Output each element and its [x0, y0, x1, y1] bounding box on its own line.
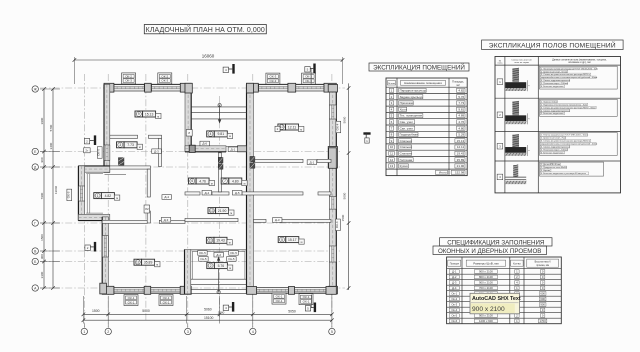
- axis bubble 1: [83, 324, 85, 328]
- axis bubble В: [32, 248, 38, 254]
- bottom dimension chain 2 total 15100: [83, 319, 332, 321]
- svg-text:2. Цементный слой - 10 мм: 2. Цементный слой - 10 мм: [541, 70, 568, 73]
- svg-text:Д-2: Д-2: [452, 275, 457, 279]
- svg-text:2: 2: [210, 264, 212, 268]
- axis bubble Ж: [32, 86, 38, 92]
- vent shaft: [218, 164, 223, 169]
- svg-text:Спальня: Спальня: [400, 145, 412, 149]
- svg-text:Д-3: Д-3: [154, 149, 159, 153]
- svg-text:3400: 3400: [49, 142, 53, 149]
- porch front door leaf: [105, 174, 127, 176]
- svg-text:Гостиная: Гостиная: [400, 158, 413, 162]
- stair arrow top: [219, 105, 221, 123]
- svg-text:Д-4: Д-4: [204, 191, 209, 195]
- svg-text:м: м: [300, 128, 302, 131]
- svg-text:КЛАДОЧНЫЙ ПЛАН НА ОТМ. 0,000: КЛАДОЧНЫЙ ПЛАН НА ОТМ. 0,000: [146, 25, 265, 34]
- vent shaft: [250, 156, 255, 161]
- window tag ОК-2 at 164.8,78.4: [158, 73, 172, 84]
- svg-text:11: 11: [209, 239, 213, 243]
- svg-text:900: 900: [40, 254, 44, 259]
- center hall south wall: [185, 146, 226, 152]
- svg-text:4.80: 4.80: [458, 126, 464, 130]
- axis bubble А: [32, 285, 38, 291]
- floor type 4 row: [497, 174, 503, 180]
- svg-text:Парадное крыльцо: Парадное крыльцо: [400, 88, 427, 92]
- door tag Д-1 at 232.9,149.3: [228, 147, 238, 152]
- svg-text:21.90: 21.90: [218, 209, 227, 213]
- svg-text:16060: 16060: [202, 54, 215, 59]
- svg-text:Г: Г: [34, 221, 36, 225]
- porch front steps: [86, 174, 88, 214]
- svg-text:Сан. узел: Сан. узел: [400, 120, 414, 124]
- svg-text:4.89: 4.89: [458, 114, 464, 118]
- svg-text:1500: 1500: [92, 309, 100, 313]
- door tag Д-4 at 206.8,192.7: [202, 190, 212, 195]
- svg-text:Спальня: Спальня: [400, 139, 412, 143]
- svg-text:ОК-1: ОК-1: [163, 300, 170, 304]
- svg-text:ОК-6: ОК-6: [66, 191, 70, 198]
- svg-text:1: 1: [97, 194, 99, 198]
- porch front top wall: [78, 166, 109, 172]
- svg-text:ЭКСПЛИКАЦИЯ ПОЛОВ ПОМЕЩЕНИЙ: ЭКСПЛИКАЦИЯ ПОЛОВ ПОМЕЩЕНИЙ: [489, 40, 616, 49]
- svg-text:ОК-4: ОК-4: [335, 221, 339, 228]
- stair wall tag: [186, 130, 192, 137]
- bottom dimension chain 1: [83, 313, 332, 315]
- door tag Д-4 at 166.7,197: [162, 195, 172, 200]
- svg-text:1500: 1500: [341, 214, 345, 221]
- vent shaft: [118, 158, 124, 162]
- axis bubble Г: [32, 220, 38, 226]
- svg-text:5000: 5000: [343, 192, 347, 199]
- svg-text:6. Бетонная подготовка: 6. Бетонная подготовка: [541, 152, 564, 154]
- svg-text:проема, мм: проема, мм: [536, 264, 549, 267]
- svg-text:1200 х 900: 1200 х 900: [479, 319, 493, 323]
- svg-text:ОК-3: ОК-3: [125, 79, 132, 83]
- svg-text:11: 11: [390, 151, 393, 155]
- room label 6: [189, 178, 197, 184]
- porch front inner outline: [86, 173, 103, 175]
- grid axis lines: [40, 74, 345, 327]
- room explication total row: [436, 170, 448, 174]
- svg-text:ОК-3: ОК-3: [270, 79, 277, 83]
- svg-text:м: м: [229, 135, 231, 138]
- svg-text:15.17: 15.17: [288, 238, 297, 242]
- svg-text:Д-4: Д-4: [164, 195, 169, 199]
- porch front bottom wall: [78, 214, 109, 220]
- svg-text:5: 5: [281, 238, 283, 242]
- vent shaft: [218, 157, 223, 162]
- interior wall room3 east: [159, 138, 162, 166]
- rear porch left wall: [185, 250, 191, 294]
- svg-text:600: 600: [540, 297, 545, 301]
- floor type 3 row: [497, 143, 503, 149]
- svg-text:ОК-3: ОК-3: [270, 75, 277, 79]
- svg-text:2. Цементный слой - 7мм: 2. Цементный слой - 7мм: [541, 137, 566, 140]
- svg-text:Ок-1: Ок-1: [451, 291, 457, 295]
- door tag ОК-5 at 202.4,252.9: [198, 251, 208, 256]
- svg-text:5.76: 5.76: [218, 264, 225, 268]
- svg-text:Ок-5: Ок-5: [200, 257, 207, 261]
- svg-text:ОК-5: ОК-5: [199, 251, 206, 255]
- svg-text:12.11: 12.11: [457, 145, 465, 149]
- svg-text:Сан. узел: Сан. узел: [400, 126, 414, 130]
- svg-text:7.73: 7.73: [127, 143, 134, 147]
- svg-text:5060: 5060: [204, 308, 212, 312]
- rear porch stair arrow: [218, 258, 220, 293]
- svg-text:ОК-1: ОК-1: [128, 296, 135, 300]
- svg-text:900: 900: [540, 302, 545, 306]
- svg-text:4.80: 4.80: [232, 179, 239, 183]
- svg-text:Д-5: Д-5: [235, 191, 240, 195]
- svg-text:800 х 2100: 800 х 2100: [479, 275, 493, 279]
- window tag ОК-3 at 272.9,78.6: [266, 73, 280, 84]
- stair left wall: [185, 84, 191, 150]
- axis bubble Д: [32, 164, 38, 170]
- svg-text:10: 10: [390, 145, 394, 149]
- svg-text:700 х 2100: 700 х 2100: [479, 286, 493, 290]
- floor type 1 row: [497, 79, 503, 85]
- svg-text:пола по серии: пола по серии: [514, 62, 529, 64]
- window tag ОК-2 at 128.6,78.4: [122, 73, 136, 84]
- wall top left wing: [104, 84, 191, 91]
- svg-text:м: м: [229, 242, 231, 245]
- svg-text:12: 12: [390, 158, 394, 162]
- svg-text:5060: 5060: [343, 116, 347, 123]
- svg-text:4.76: 4.76: [458, 120, 464, 124]
- wall right: [329, 84, 336, 293]
- corner block bottom left: [100, 283, 107, 294]
- axis bubble Б: [32, 258, 38, 264]
- stair treads top: [191, 106, 246, 108]
- vertical window tag ОК-4: [336, 219, 341, 231]
- vertical window tag ОК-6: [97, 147, 102, 159]
- svg-text:15.13: 15.13: [457, 139, 465, 143]
- interior wall wc divider: [218, 153, 221, 192]
- svg-text:Спальня: Спальня: [400, 151, 412, 155]
- small tag left: [84, 148, 91, 153]
- svg-text:21.90: 21.90: [457, 164, 465, 168]
- section flag 5 top: [305, 67, 310, 72]
- window tag ОК-1 at 131,300: [124, 295, 138, 306]
- svg-text:м: м: [244, 182, 246, 185]
- interior wall hall north: [110, 166, 151, 169]
- hall south wall pier: [189, 145, 195, 152]
- svg-text:7.73: 7.73: [458, 101, 464, 105]
- door tag Д-3 at 166,219.8: [161, 218, 171, 223]
- svg-text:Позиция: Позиция: [450, 263, 460, 265]
- section flag 1 right: [363, 132, 370, 134]
- room explication table: [386, 78, 467, 176]
- section flag 4 bottom: [223, 305, 228, 310]
- svg-text:ОК-1: ОК-1: [303, 300, 310, 304]
- svg-text:6: 6: [191, 179, 193, 183]
- svg-text:900 х 2100: 900 х 2100: [479, 269, 493, 273]
- window tag ОК-1 at 306,299.2: [299, 294, 313, 305]
- interior wall right wing divider: [254, 159, 304, 162]
- door niche tag: [275, 126, 280, 132]
- stair wall top piers: [185, 83, 192, 93]
- svg-text:пола: пола: [498, 63, 504, 65]
- svg-text:5050: 5050: [288, 309, 296, 313]
- svg-text:4: 4: [210, 132, 212, 136]
- svg-text:5. Бетонная подготовка: 5. Бетонная подготовка: [541, 113, 564, 115]
- svg-text:ОК-6: ОК-6: [97, 149, 101, 156]
- svg-text:Ок-2: Ок-2: [451, 297, 457, 301]
- door tag Д-1 at 311.9,162.1: [307, 160, 317, 165]
- axis bubble 3: [187, 324, 189, 328]
- svg-text:15.13: 15.13: [145, 112, 154, 116]
- svg-text:19.43: 19.43: [216, 239, 225, 243]
- room label 3: [117, 142, 125, 148]
- svg-text:13: 13: [210, 209, 214, 213]
- wall bottom left wing: [102, 287, 191, 293]
- interior wall living north: [102, 220, 147, 223]
- door tag Д-6 at 204.7,143.5: [200, 141, 210, 146]
- section flag 2 left lower: [85, 245, 90, 250]
- svg-text:Д-3: Д-3: [275, 218, 280, 222]
- svg-text:Д-2: Д-2: [216, 253, 221, 257]
- svg-text:3: 3: [187, 330, 189, 334]
- svg-text:Д-3: Д-3: [164, 218, 169, 222]
- room label 10: [278, 124, 286, 130]
- axis bubble 5: [331, 324, 333, 328]
- svg-text:9: 9: [138, 112, 140, 116]
- floors explication table title: [482, 40, 623, 50]
- svg-text:5000: 5000: [142, 309, 150, 313]
- svg-text:900: 900: [40, 157, 44, 162]
- svg-text:Ок-5: Ок-5: [228, 257, 235, 261]
- svg-text:2: 2: [107, 330, 109, 334]
- svg-text:900 x 2100: 900 x 2100: [472, 306, 505, 313]
- door tag Д-2 at 218.7,254.7: [214, 252, 224, 257]
- svg-text:Д-4: Д-4: [452, 286, 457, 290]
- svg-text:Д-1: Д-1: [310, 160, 315, 164]
- svg-text:Итого: Итого: [439, 171, 447, 175]
- right dimension chain: [348, 83, 350, 290]
- door tag Д-3 at 277.2,220: [272, 218, 282, 223]
- wall left lower: [102, 217, 108, 294]
- svg-text:Д-6: Д-6: [202, 142, 207, 146]
- left dimension chains: [43, 89, 45, 288]
- room label 2: [207, 263, 215, 269]
- vent shaft: [250, 163, 255, 168]
- svg-text:1000: 1000: [218, 311, 225, 315]
- rear porch steps: [191, 278, 247, 280]
- svg-text:13: 13: [390, 164, 394, 168]
- svg-text:ОКОННЫХ И ДВЕРНЫХ ПРОЕМОВ: ОКОННЫХ И ДВЕРНЫХ ПРОЕМОВ: [438, 248, 541, 255]
- tooltip AutoCAD SHX Text: [470, 293, 521, 314]
- door tag Ок-5 at 203.4,258.9: [199, 257, 209, 262]
- svg-text:4.82: 4.82: [105, 194, 112, 198]
- svg-text:9.81: 9.81: [217, 132, 224, 136]
- svg-text:м2: м2: [456, 83, 460, 87]
- svg-text:600: 600: [540, 291, 545, 295]
- interior wall kitchen south: [185, 218, 238, 221]
- window tag ОК-3 at 308.6,78.6: [302, 73, 316, 84]
- interior wall bedroom south right: [254, 219, 267, 222]
- svg-text:15100: 15100: [204, 316, 214, 320]
- svg-text:Л2: Л2: [145, 207, 149, 211]
- room explication table title: [369, 63, 469, 71]
- svg-text:1: 1: [83, 330, 85, 334]
- svg-text:1. Линолеум поливинилхлоридный: 1. Линолеум поливинилхлоридный ГОСТ 1810…: [541, 67, 599, 70]
- spec table: [447, 257, 562, 324]
- svg-text:1700: 1700: [540, 319, 547, 323]
- wall top right wing: [247, 84, 337, 91]
- svg-text:5: 5: [331, 330, 333, 334]
- svg-text:5700: 5700: [49, 124, 53, 131]
- room label 12: [134, 259, 142, 265]
- vent shaft: [118, 162, 124, 166]
- svg-text:ЭКСПЛИКАЦИЯ ПОМЕЩЕНИЙ: ЭКСПЛИКАЦИЯ ПОМЕЩЕНИЙ: [373, 63, 465, 72]
- svg-text:ОК-5: ОК-5: [230, 251, 237, 255]
- spec table title 2: [433, 246, 547, 255]
- section flag 5 bottom: [305, 306, 310, 311]
- svg-text:керамзитобетоном и теплоизоляц: керамзитобетоном и теплоизоляционной доб…: [541, 76, 598, 79]
- spec table title 1: [440, 238, 552, 246]
- floor type 2 row: [497, 112, 503, 118]
- room label 9: [135, 111, 143, 117]
- svg-text:Ок-6: Ок-6: [451, 319, 457, 323]
- svg-text:ОК-1: ОК-1: [128, 300, 135, 304]
- svg-text:5.29: 5.29: [458, 133, 464, 137]
- wall left upper: [104, 84, 110, 172]
- svg-text:ОК-1: ОК-1: [276, 299, 283, 303]
- svg-text:м: м: [116, 197, 118, 200]
- svg-text:Тех. помещение: Тех. помещение: [400, 114, 423, 118]
- door tag Ок-5 at 231.4,258.9: [227, 257, 237, 262]
- svg-text:СПЕЦИФИКАЦИЯ ЗАПОЛНЕНИЯ: СПЕЦИФИКАЦИЯ ЗАПОЛНЕНИЯ: [447, 239, 544, 246]
- window tag ОК-1 at 166,300: [159, 295, 173, 306]
- svg-text:№ пом: № пом: [388, 82, 395, 85]
- door tag Д-3 at 156.5,151.2: [152, 149, 162, 154]
- svg-text:ОК-1: ОК-1: [163, 296, 170, 300]
- svg-text:3: 3: [119, 143, 121, 147]
- svg-text:6. Бетонная подготовка: 6. Бетонная подготовка: [541, 86, 564, 88]
- svg-text:Д-3: Д-3: [452, 280, 457, 284]
- wall bottom right wing: [254, 288, 337, 294]
- svg-text:3900: 3900: [40, 117, 44, 124]
- floors explication table: [495, 57, 621, 193]
- svg-text:м: м: [139, 146, 141, 149]
- svg-text:5.76: 5.76: [458, 95, 464, 99]
- svg-text:7: 7: [224, 179, 226, 183]
- svg-text:35.89: 35.89: [144, 261, 153, 265]
- svg-text:13040: 13040: [54, 185, 58, 194]
- axis bubble 4: [252, 324, 254, 328]
- svg-text:м: м: [157, 115, 159, 118]
- porch front left wall: [78, 166, 84, 221]
- interior wall room9 south: [110, 135, 138, 138]
- svg-text:м: м: [230, 212, 232, 215]
- svg-text:35.89: 35.89: [457, 158, 465, 162]
- room label 1: [94, 193, 102, 199]
- svg-text:Размеры ШхВ, мм: Размеры ШхВ, мм: [473, 262, 498, 266]
- svg-text:4.82: 4.82: [458, 88, 464, 92]
- svg-text:основание и др.), мм: основание и др.), мм: [568, 62, 591, 64]
- interior wall hall east: [147, 169, 150, 197]
- svg-text:12.11: 12.11: [288, 125, 296, 129]
- room label 5: [278, 237, 286, 243]
- svg-text:3300: 3300: [40, 271, 44, 278]
- door tag Д-5 at 237.2,192.7: [232, 190, 242, 195]
- svg-text:ОК-3: ОК-3: [161, 79, 168, 83]
- rear porch inner outline: [191, 251, 193, 279]
- svg-text:AutoCAD SHX Text: AutoCAD SHX Text: [472, 296, 521, 302]
- svg-text:Ок-5: Ок-5: [451, 313, 457, 317]
- interior wall center: [185, 192, 200, 195]
- landing tag: [144, 205, 150, 213]
- svg-text:1500: 1500: [40, 234, 44, 241]
- room label 13: [208, 208, 216, 214]
- axis bubble 2: [107, 324, 109, 328]
- vertical window tag ОК-4: [336, 121, 341, 133]
- svg-text:7900: 7900: [40, 192, 44, 199]
- svg-text:900 х 2100: 900 х 2100: [479, 280, 493, 284]
- svg-text:9.81: 9.81: [458, 107, 464, 111]
- svg-text:12: 12: [136, 260, 140, 264]
- right wall pier step: [329, 148, 337, 169]
- vertical window tag ОК-6: [67, 189, 72, 201]
- svg-text:4.76: 4.76: [199, 179, 206, 183]
- room label 11: [206, 237, 214, 243]
- svg-text:Ок-4: Ок-4: [451, 308, 457, 312]
- svg-text:Холл: Холл: [400, 107, 407, 111]
- svg-text:Гардеробная: Гардеробная: [400, 133, 419, 137]
- thin wall hall east continuation: [226, 145, 238, 147]
- svg-text:Д-1: Д-1: [452, 269, 457, 273]
- svg-text:ОК-1: ОК-1: [276, 295, 283, 299]
- svg-text:м: м: [211, 182, 213, 185]
- svg-text:10: 10: [280, 125, 284, 129]
- svg-text:Д-1: Д-1: [231, 148, 236, 152]
- svg-text:ОК-1: ОК-1: [303, 295, 310, 299]
- center wall between wings: [247, 84, 254, 294]
- axis bubble Е: [32, 148, 38, 154]
- svg-text:м: м: [301, 241, 303, 244]
- svg-text:152.98: 152.98: [455, 171, 465, 175]
- svg-text:керамзитобетоном и теплоизоляц: керамзитобетоном и теплоизоляционной доб…: [541, 142, 598, 145]
- bottom extension lines: [82, 296, 84, 324]
- top dimension line 16060: [74, 59, 342, 61]
- room label 4: [207, 131, 215, 137]
- svg-text:Л: Л: [188, 131, 190, 135]
- svg-text:Кухня: Кухня: [400, 164, 408, 168]
- svg-text:ОК-2: ОК-2: [125, 74, 132, 78]
- svg-text:4: 4: [252, 330, 254, 334]
- svg-text:м: м: [229, 267, 231, 270]
- section flag 4 top: [223, 67, 228, 72]
- svg-text:ОК-2: ОК-2: [161, 74, 168, 78]
- svg-text:ОК-4: ОК-4: [335, 123, 339, 130]
- svg-text:19.43: 19.43: [457, 151, 465, 155]
- svg-text:1. Доска АПБ 40 мм: 1. Доска АПБ 40 мм: [541, 163, 561, 166]
- svg-text:4. Бетонная подготовка с раств: 4. Бетонная подготовка с раствора 40 мм …: [541, 173, 586, 175]
- svg-text:Ок-3: Ок-3: [451, 302, 457, 306]
- svg-text:Кол-во: Кол-во: [513, 262, 521, 265]
- svg-text:Заднее крыльцо: Заднее крыльцо: [400, 95, 423, 99]
- window tag ОК-1 at 279,298.6: [272, 293, 286, 304]
- drawing title: [144, 25, 266, 34]
- svg-text:Наименование помещения: Наименование помещения: [404, 81, 442, 85]
- door tag ОК-5 at 233.5,252.9: [229, 251, 239, 256]
- section flag 2 left upper: [84, 139, 89, 144]
- svg-text:Прихожая: Прихожая: [400, 101, 414, 105]
- svg-text:м: м: [156, 264, 158, 267]
- room label 7: [221, 178, 229, 184]
